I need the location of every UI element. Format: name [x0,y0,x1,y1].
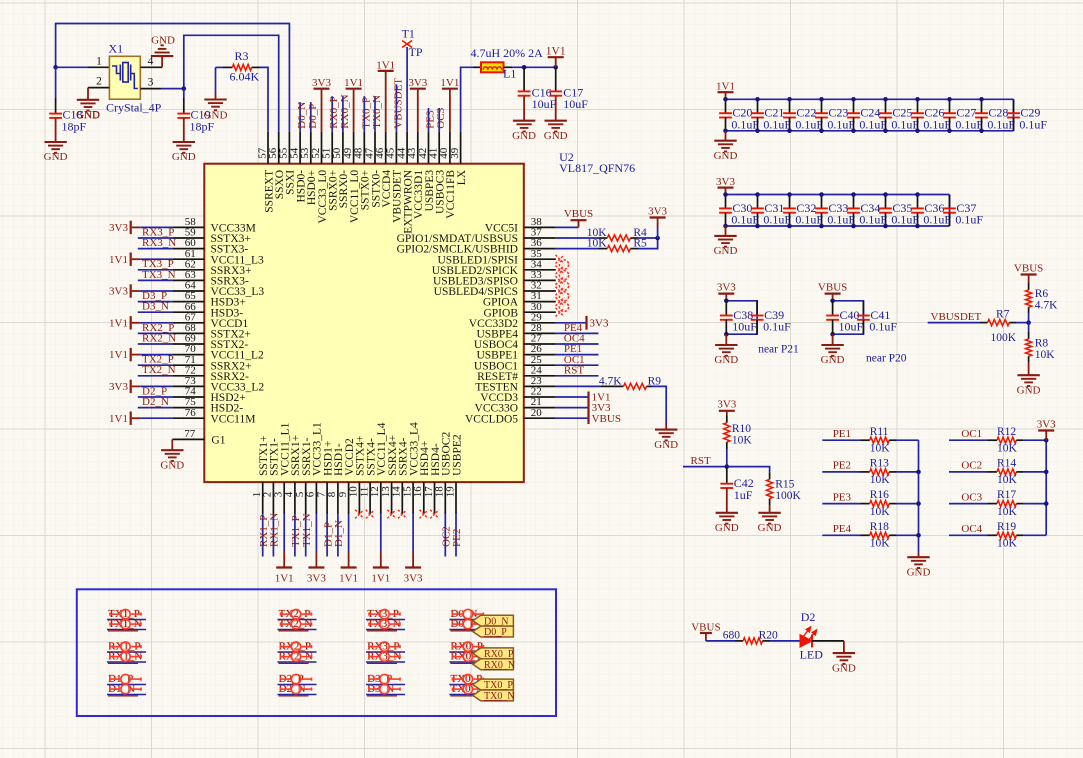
pin 42 USBPE3 [428,132,430,164]
net label D3_N at pin 66 [138,311,173,313]
capacitor C30 0.1uF [725,195,727,209]
node crystal pin1 / C18 [53,65,58,70]
resistor R20 680 [735,640,743,642]
svg-text:3V3: 3V3 [1037,419,1056,431]
net label PE4 at pin 28 [556,332,599,334]
ground at R3 [204,98,226,100]
power port VBUS at R20 [705,633,707,641]
svg-text:D2: D2 [801,610,816,624]
svg-text:76: 76 [185,407,197,419]
svg-text:D3_N: D3_N [142,301,169,313]
svg-text:GND: GND [512,130,536,142]
svg-text:R16: R16 [870,489,889,501]
power port 1V1 at pin 40 [449,89,451,132]
svg-text:0.1uF: 0.1uF [859,117,887,131]
pin 11 SSTX4- [369,482,371,514]
svg-text:3V3: 3V3 [408,77,427,89]
svg-text:GND: GND [544,130,568,142]
svg-text:3V3: 3V3 [717,399,736,411]
svg-text:1uF: 1uF [734,488,753,502]
power port 3V3 at pin 15 [412,514,414,552]
resistor R17 10K [988,503,998,505]
svg-text:1V1: 1V1 [109,317,128,329]
resistor R12 10K [988,439,998,441]
svg-text:GND: GND [714,354,738,366]
resistor R3 6.04K from SSREXT to ground [216,66,224,68]
diff pair net label TX0_N [449,694,488,696]
capacitor C23 0.1uF [821,99,823,113]
pin 50 SSRX0- [342,132,344,164]
power port 1V1 at pin 9 [348,514,350,552]
capacitor C31 0.1uF [757,195,759,209]
ground at LED [833,652,855,654]
pin 35 USBLED1/SPISI [524,258,556,260]
svg-text:3V3: 3V3 [109,381,128,393]
pin 33 USBLED3/SPISO [524,279,556,281]
net label D0_P at pin 53 [310,102,312,132]
ground at C19 [173,141,195,143]
node R6/R7/R8 [1026,320,1031,325]
pin 12 VCC11_L4 [380,482,382,514]
resistor R5 10K pin 36 to 3V3 [556,248,599,250]
diff pair net label RX3_N [366,661,405,663]
pin 47 SSTX0- [374,132,376,164]
power port 3V3 at pin 58 [140,226,172,228]
ground at C20 bank [725,131,727,141]
power port 1V1 at pin 70 [140,354,172,356]
net label OC2 [949,471,988,473]
net label RST at pin 24 [556,375,599,377]
capacitor C17 10uF [555,67,557,91]
net label RX0_N at pin 50 [342,96,344,132]
ground at pin 77 [171,439,173,450]
pin 74 HSD2+ [172,396,204,398]
pin 44 EXTPWRON [406,132,408,164]
ground at C17 [545,120,567,122]
svg-text:6.04K: 6.04K [230,70,260,84]
capacitor C29 0.1uF [1013,99,1015,113]
pin 55 SSXI [288,132,290,164]
svg-text:10K: 10K [1035,349,1056,361]
capacitor C33 0.1uF [821,195,823,209]
svg-text:GND: GND [714,245,738,257]
svg-text:LED: LED [800,648,824,662]
pin 72 SSRX2- [172,375,204,377]
node L1/C16 [522,65,527,70]
svg-text:0.1uF: 0.1uF [827,117,855,131]
svg-text:R17: R17 [997,489,1016,501]
diff pair net label TX3_N [366,629,405,631]
diff pair net label RX2_N [278,661,317,663]
net label RX2_N at pin 69 [138,343,173,345]
node RST [725,464,730,469]
pin 51 SSRX0+ [331,132,333,164]
svg-text:VL817_QFN76: VL817_QFN76 [559,161,635,175]
ground at C30 bank [725,226,727,236]
pin 71 SSRX2+ [172,364,204,366]
port TX0_N [473,690,514,701]
capacitor C42 1uF [726,467,728,484]
svg-text:1V1: 1V1 [440,77,459,89]
no connect marks pins 10,11,13,14,16,17 [355,510,364,519]
pin 23 TESTEN [524,385,556,387]
pin 13 SSRX4+ [391,482,393,514]
pin 67 VCCD1 [172,322,204,324]
svg-text:0.1uF: 0.1uF [731,213,759,227]
svg-text:R19: R19 [997,521,1016,533]
pin 34 USBLED2/SPICK [524,269,556,271]
svg-text:10K: 10K [997,506,1018,518]
svg-text:1V1: 1V1 [109,349,128,361]
svg-text:R6: R6 [1035,288,1049,300]
ground at crystal pin 4 (inverted) [161,56,163,67]
svg-text:R10: R10 [732,423,751,435]
diff pair net label TX2_P [278,619,317,621]
ground at C42 [716,512,738,514]
node crystal pin3 / C19 [182,86,187,91]
power port 3V3 at C38 [725,294,727,301]
svg-text:VBUS: VBUS [564,208,593,220]
pin 73 VCC33_L2 [172,385,204,387]
pin 76 VCC11M [172,417,204,419]
svg-text:R18: R18 [870,521,889,533]
net label OC4 [949,534,988,536]
pin 64 VCC33_L3 [172,290,204,292]
pin 29 VCC33D2 [524,322,556,324]
svg-text:0.1uF: 0.1uF [731,117,759,131]
pin 22 VCCD3 [524,396,556,398]
power port 3V3 at pin 43 [417,89,419,132]
diff pair net label TX0_P [449,684,488,686]
diff pair net label TX2_N [278,629,317,631]
net label D1_N at pin 8 [337,514,339,556]
svg-text:77: 77 [184,428,196,440]
svg-text:0.1uF: 0.1uF [795,213,823,227]
svg-text:0.1uF: 0.1uF [763,213,791,227]
resistor R7 100K [980,322,988,324]
svg-text:3V3: 3V3 [109,286,128,298]
svg-text:R15: R15 [775,478,794,490]
svg-text:1V1: 1V1 [109,254,128,266]
net label RX1_N at pin 2 [272,514,274,556]
pin 4 of X1 [140,66,162,68]
capacitor C34 0.1uF [853,195,855,209]
diff pair net label TX1_P [107,619,146,621]
svg-text:10K: 10K [870,538,891,550]
net label TX0_P at pin 48 [363,96,365,132]
svg-text:GND: GND [160,459,184,471]
pin 52 VCC33_L0 [321,132,323,164]
svg-text:10K: 10K [587,238,608,250]
pin 7 HSD1+ [326,482,328,514]
svg-text:2: 2 [96,76,102,88]
pin 62 SSRX3+ [172,269,204,271]
power port 3V3 at R4/R5 [657,227,659,238]
svg-text:10uF: 10uF [532,97,557,111]
power port VBUS at R6 [1028,275,1030,284]
svg-text:19: 19 [444,486,456,498]
pin 48 SSTX0+ [363,132,365,164]
svg-text:near P21: near P21 [758,344,799,356]
capacitor C28 0.1uF [981,99,983,113]
wire VBUS to R20 [706,640,735,642]
svg-text:R13: R13 [870,458,889,470]
pin 2 SSTX1- [272,482,274,514]
svg-text:100K: 100K [775,490,801,502]
capacitor C26 0.1uF [917,99,919,113]
svg-text:RX3_N: RX3_N [142,237,176,249]
svg-text:0.1uF: 0.1uF [891,213,919,227]
svg-text:0.1uF: 0.1uF [795,117,823,131]
diff pair net label RX2_P [278,651,317,653]
capacitor C32 0.1uF [789,195,791,209]
power port 1V1 at C17 [555,57,557,67]
svg-text:D2_N: D2_N [142,396,169,408]
pin 70 VCC11_L2 [172,354,204,356]
wire RST to R15 [727,467,770,473]
svg-text:GND: GND [204,110,228,122]
wire PE resistor rail [918,440,920,552]
net label PE2 [822,471,860,473]
net label TX0_N at pin 47 [374,96,376,132]
LED D2 [800,635,812,648]
net label D2_N at pin 75 [138,407,173,409]
svg-text:10K: 10K [870,506,891,518]
pin 3 VCC11_L1 [283,482,285,514]
pin 66 HSD3- [172,311,204,313]
diff pair net label D0_N [449,619,488,621]
net label RX3_N at pin 60 [138,248,173,250]
capacitor C22 0.1uF [789,99,791,113]
svg-text:R8: R8 [1035,337,1049,349]
pin 57 SSREXT [267,132,269,164]
power port 1V1 at capacitor bank C20-C29 [725,92,727,99]
net label D0_N at pin 54 [299,102,301,132]
svg-text:20: 20 [531,407,543,419]
power port VBUS at C40 [832,294,834,301]
svg-text:L1: L1 [503,67,516,81]
svg-text:10K: 10K [870,443,891,455]
pin 43 VCC33D1 [417,132,419,164]
svg-text:VCCLDO5: VCCLDO5 [465,413,518,425]
wires C38/C39 loop [726,301,757,334]
svg-text:R11: R11 [870,426,889,438]
power port 3V3 at OC rail [1045,431,1047,441]
pin 10 SSTX4+ [358,482,360,514]
ground at PE rail [918,552,920,557]
pin 18 USBOC2 [444,482,446,514]
svg-text:0.1uF: 0.1uF [923,213,951,227]
svg-text:1V1: 1V1 [371,573,390,585]
power port 3V3 at R10 [726,411,728,416]
svg-text:0.1uF: 0.1uF [955,213,983,227]
pin 54 HSD0- [299,132,301,164]
pin 37 GPIO1/SMDAT/USBSUS [524,237,556,239]
svg-text:RX2_N: RX2_N [142,332,176,344]
net label RX1_P at pin 1 [262,514,264,556]
wire top rail of C30-C37 [726,194,950,196]
svg-text:1: 1 [96,55,102,67]
net label OC3 at pin 41 [438,108,440,132]
diff pair net label D1_N [107,694,146,696]
svg-text:10uF: 10uF [732,320,757,334]
ground at R9 [655,429,677,431]
pin 4 SSRX1+ [294,482,296,514]
net label D2_P at pin 74 [138,396,173,398]
svg-text:10K: 10K [997,443,1018,455]
resistor R19 10K [988,534,998,536]
capacitor C21 0.1uF [757,99,759,113]
svg-text:R9: R9 [648,375,662,387]
resistor R15 100K [769,472,771,479]
pin 8 HSD1- [337,482,339,514]
net label TX3_P at pin 62 [138,269,173,271]
svg-text:GND: GND [172,151,196,163]
svg-text:RST: RST [564,364,584,376]
pin 68 SSTX2+ [172,332,204,334]
capacitor C20 0.1uF [725,99,727,113]
svg-text:G1: G1 [211,435,225,447]
ground at C18 [44,141,66,143]
ground at C40 [832,334,834,345]
svg-text:GND: GND [76,110,100,122]
svg-text:10uF: 10uF [563,97,588,111]
power port 1V1 at pin 67 [140,322,172,324]
svg-text:1V1: 1V1 [546,46,566,58]
svg-text:GND: GND [654,439,678,451]
svg-text:GND: GND [907,566,931,578]
svg-text:3V3: 3V3 [648,206,667,218]
svg-text:near P20: near P20 [866,353,907,365]
diff pair net label RX1_P [107,651,146,653]
svg-text:3V3: 3V3 [312,77,331,89]
net label TX1_N at pin 5 [305,514,307,556]
svg-text:D1_N: D1_N [333,520,345,547]
pin 59 SSTX3+ [172,237,204,239]
pin 19 USBPE2 [455,482,457,514]
wire LED to ground [812,640,844,642]
svg-text:GND: GND [758,522,782,534]
diff pair net label RX0_N [449,661,488,663]
svg-text:D0_P: D0_P [307,104,319,129]
svg-text:1V1: 1V1 [344,77,363,89]
capacitor C36 0.1uF [917,195,919,209]
pin 27 USBOC4 [524,343,556,345]
power port VBUS at pin 38 [556,226,579,228]
diff pair net label D3_P [366,684,405,686]
svg-text:RX0_N: RX0_N [339,94,351,128]
svg-text:1V1: 1V1 [376,59,395,71]
svg-text:OC2: OC2 [961,460,982,472]
svg-text:TX0_N: TX0_N [371,95,383,129]
port D0_N [473,615,514,626]
wire right end of C20-C29 rails [1013,99,1015,131]
wire crystal pin3 node up and over to IC pin 56 (SSXO) [184,35,279,132]
pin 26 USBPE1 [524,354,556,356]
pin 14 SSRX4- [401,482,403,514]
power port 1V1 at pin 76 [140,417,172,419]
pin 61 VCC11_L3 [172,258,204,260]
svg-text:GND: GND [821,354,845,366]
pin 32 USBLED4/SPICS [524,290,556,292]
wire bottom rail of C30-C37 [726,225,950,227]
power port 3V3 at pin 73 [140,385,172,387]
diff pair net label D0_P [449,629,488,631]
svg-text:100K: 100K [991,332,1017,344]
op-amp U2 VL817_QFN76 body [204,164,524,482]
pin 15 VCC33_L4 [412,482,414,514]
diff pair net label D2_P [278,684,317,686]
svg-text:TP: TP [409,45,423,59]
capacitor C37 0.1uF [949,195,951,209]
svg-text:OC4: OC4 [961,523,982,535]
wire top rail of C20-C29 [726,98,1014,100]
svg-text:3V3: 3V3 [109,222,128,234]
diff pair net label RX3_P [366,651,405,653]
net label PE4 [822,534,860,536]
power port 1V1 at pin 49 [353,89,355,132]
pin 20 VCCLDO5 [524,417,556,419]
wire R20 to LED D2 [770,640,800,642]
pin 21 VCC33O [524,407,556,409]
svg-text:GND: GND [151,35,175,47]
svg-text:LX: LX [456,169,468,185]
svg-text:PE3: PE3 [833,491,852,503]
svg-text:TX2_N: TX2_N [142,364,176,376]
net label RX2_P at pin 68 [138,332,173,334]
net label OC3 [949,503,988,505]
svg-text:OC3: OC3 [435,107,447,128]
svg-text:VBUS: VBUS [818,281,847,293]
net label OC2 at pin 18 [444,514,446,556]
net label PE1 at pin 26 [556,354,599,356]
capacitor C40 10uF [832,301,834,316]
pin 63 SSRX3- [172,279,204,281]
pin 3 of X1 [140,88,161,90]
resistor R13 10K [861,471,870,473]
power port 3V3 at pin 64 [140,290,172,292]
test point T1 TP at pin 44 EXTPWRON [406,47,408,132]
resistor R16 10K [861,503,870,505]
capacitor C38 10uF [725,301,727,316]
svg-text:0.1uF: 0.1uF [763,320,791,334]
svg-text:R14: R14 [997,458,1016,470]
pin 5 SSRX1- [305,482,307,514]
ground at C16 [513,120,535,122]
resistor R4 10K pin 37 to 3V3 [556,237,599,239]
net label OC1 [949,439,988,441]
svg-text:0.1uF: 0.1uF [987,117,1015,131]
svg-text:0.1uF: 0.1uF [859,213,887,227]
svg-text:4.7K: 4.7K [1035,300,1058,312]
resistor R6 4.7K [1028,283,1030,290]
svg-text:R3: R3 [235,49,249,63]
svg-text:680: 680 [723,630,741,642]
net label TX3_N at pin 63 [138,279,173,281]
svg-text:TX1_N: TX1_N [301,513,313,547]
svg-text:4.7K: 4.7K [599,375,622,387]
net label PE2 at pin 19 [455,514,457,556]
svg-text:USBPE2: USBPE2 [451,434,463,476]
power port 3V3 at pin 52 [321,89,323,132]
svg-text:GND: GND [832,662,856,674]
pin 46 VCCD4 [385,132,387,164]
capacitor C24 0.1uF [853,99,855,113]
power port 1V1 at pin 3 [283,514,285,552]
pin 39 LX [460,132,462,164]
pin 6 VCC33_L1 [315,482,317,514]
svg-text:0.1uF: 0.1uF [763,117,791,131]
